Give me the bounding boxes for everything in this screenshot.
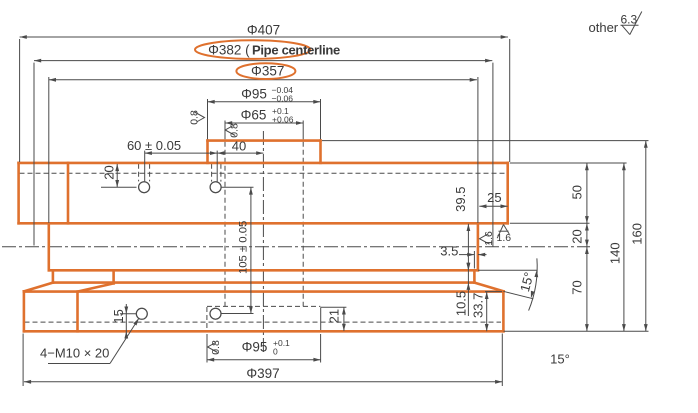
inner ring edge [112,270,115,283]
dimension PHI95 upper [208,101,321,103]
hidden hole1 right [149,164,151,182]
svg-text:3.5: 3.5 [440,243,458,258]
surface symbol 1.6 flange bottom [497,225,503,239]
svg-text:140: 140 [608,242,623,264]
svg-text:Φ95: Φ95 [242,339,268,354]
extension lower flange bottom [504,330,649,332]
dimension 39.5 [467,224,469,270]
dimension 20 hole [116,164,118,187]
svg-text:0.8: 0.8 [210,340,222,355]
dimension 21 [343,307,345,331]
svg-text:40: 40 [232,139,246,154]
svg-text:Φ382 (: Φ382 ( [208,42,250,57]
extension boss top [322,140,649,142]
svg-text:+0.06: +0.06 [272,114,294,124]
hidden bore left edge [224,142,226,307]
svg-text:160: 160 [629,223,644,245]
mid cylinder bottom edge [49,269,478,272]
hidden bore floor [207,305,320,307]
mid cylinder left edge [47,223,50,270]
dimension PHI382 Pipe centerline [34,60,492,62]
dimension 33.7 [486,292,488,331]
svg-text:other: other [589,20,619,35]
dimension 50-20-70 chain [586,163,588,331]
dimension 25 [479,205,507,207]
svg-text:10.5: 10.5 [454,291,469,316]
dimension 140 [623,163,625,331]
svg-text:1.6: 1.6 [496,232,511,244]
surface symbol 0.8 boss left [195,112,205,122]
svg-text:1.6: 1.6 [483,231,495,246]
svg-text:4−M10 × 20: 4−M10 × 20 [40,346,109,361]
svg-text:−0.06: −0.06 [272,93,294,103]
svg-text:Φ65: Φ65 [241,107,267,122]
svg-text:20: 20 [101,165,116,179]
lower flange left edge [23,291,26,331]
extension mid cylinder bottom [478,269,537,271]
svg-text:70: 70 [570,280,585,294]
dimension 15 degree arc [503,291,533,299]
svg-text:Φ407: Φ407 [247,23,280,38]
dimension PHI95 lower [207,359,321,361]
extension flange top [510,162,627,164]
svg-text:Φ397: Φ397 [246,366,279,381]
surface symbol 1.6 cylinder [480,234,490,244]
svg-text:0.8: 0.8 [229,123,241,138]
svg-text:33.7: 33.7 [471,293,486,318]
svg-text:50: 50 [570,185,585,199]
svg-text:15: 15 [111,309,126,323]
neck bottom edge [53,281,475,284]
surface symbol 0.8 recess [208,343,218,353]
boss right edge [319,141,322,163]
lower flange right edge [502,291,505,331]
hole circle bottom-left [136,308,147,319]
dimension 15 [125,304,127,336]
svg-text:21: 21 [327,309,342,323]
dimension PHI407 [20,36,508,38]
hidden hole1 left [138,164,140,182]
hole circle top-left [139,182,150,193]
dimension PHI65 [225,122,303,124]
top flange left edge [17,163,20,223]
inner ring chamfer [78,283,114,291]
recess right wall [320,307,322,331]
mid cylinder right edge [477,223,480,270]
surface symbol 0.8 bore [225,126,235,136]
svg-text:0: 0 [273,346,278,356]
neck left edge [52,270,55,282]
dimension 60 [145,152,218,154]
hole circle bottom-right [210,308,221,319]
hidden bore right edge [302,142,304,307]
hidden line top flange [20,172,508,174]
boss top edge [208,139,321,142]
svg-text:20: 20 [570,229,585,243]
svg-text:0.8: 0.8 [188,110,200,125]
hidden line lower flange [25,321,502,323]
top flange bottom edge [19,222,508,225]
dimension PHI397 [24,381,502,383]
hole circle top-right [210,182,221,193]
dimension 3.5 [459,254,474,256]
svg-text:60 ± 0.05: 60 ± 0.05 [127,138,181,153]
boss left edge [206,141,209,163]
svg-text:Φ95: Φ95 [241,86,267,101]
top flange top edge [19,162,508,165]
svg-text:Φ357: Φ357 [251,64,284,79]
dimension 40 [217,152,263,154]
lower flange bottom edge [24,330,504,333]
svg-text:15°: 15° [550,352,570,367]
right chamfer [474,283,503,292]
dimension 160 [645,141,647,332]
left chamfer [24,283,53,292]
svg-text:39.5: 39.5 [453,187,468,212]
top flange inner step line [67,163,70,223]
svg-text:25: 25 [487,190,501,205]
dimension 10.5 [467,263,469,316]
top flange right edge [506,163,509,223]
dimension PHI357 [49,79,477,81]
extension flange bottom [510,222,590,224]
dimension 105 [250,187,252,313]
vertical centerline [262,131,264,354]
lower flange inner step line [76,292,79,332]
svg-text:Pipe centerline: Pipe centerline [252,43,340,58]
lower flange top face [24,290,504,293]
hidden recess left wall [206,307,208,331]
hidden hole2 left [211,164,213,182]
horizontal centerline [2,246,590,248]
svg-text:105 ± 0.05: 105 ± 0.05 [238,221,250,274]
hidden hole2 right [220,164,222,182]
neck right edge [473,270,476,282]
